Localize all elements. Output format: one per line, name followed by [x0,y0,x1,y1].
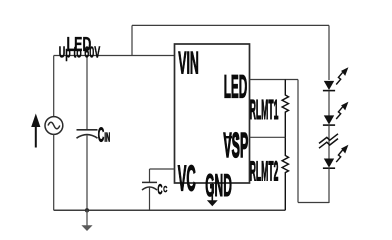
svg-text:IN: IN [104,131,110,146]
svg-text:RLMT1: RLMT1 [250,95,279,126]
wire: LED string bottom [298,202,329,204]
wire: right return vertical [297,80,299,203]
LED D1 [323,67,349,90]
break symbol (string continues) [319,134,338,148]
wire: VSP pin tap [250,136,286,138]
svg-text:RLMT2: RLMT2 [250,157,279,188]
svg-text:C: C [158,183,163,198]
svg-text:GND: GND [205,169,232,204]
LED D3 [323,145,349,168]
wire: LED3 to bottom corner [328,168,330,203]
wire: VC pin to CC [150,168,175,170]
wire: VIN input horizontal [54,55,175,57]
wire: source bottom lead [53,134,55,210]
resistor RLMT2 [282,137,288,210]
wire: CIN top lead [86,56,88,130]
label CIN [98,124,110,147]
capacitor CC [142,182,157,190]
wire: bottom ground rail [54,209,286,211]
pin label VSP (overlapped text) [223,127,248,165]
svg-text:VIN: VIN [178,47,199,82]
ground symbol at GND pin [207,183,218,206]
wire: CC bottom lead [149,187,151,210]
wire: LED string top drop [328,25,330,80]
svg-text:VC: VC [178,160,196,200]
wire: CIN bottom lead [86,136,88,211]
IC U1 box [175,44,250,183]
node: ground junction dot [85,208,89,212]
wire: LED1-LED2 segment [328,91,330,116]
current direction arrow [31,114,40,148]
wire: CC top lead [149,169,151,182]
svg-text:C: C [163,184,167,194]
wire: top rail horizontal [132,24,329,26]
LED D2 [323,102,349,125]
svg-text:LED: LED [224,70,248,106]
label CC [158,183,168,198]
svg-text:Up to 60V: Up to 60V [59,43,101,61]
wire: LED pin to resistor top [250,79,299,81]
wire: left rail upper vertical [53,56,55,117]
ground symbol main [81,210,92,231]
capacitor CIN [77,130,98,138]
voltage source V1 [45,117,63,135]
svg-text:VSP: VSP [223,127,248,165]
wire: LED2 to break segment [328,125,330,159]
wire: top rail drop to VIN wire [131,25,133,55]
resistor RLMT1 [282,80,288,138]
